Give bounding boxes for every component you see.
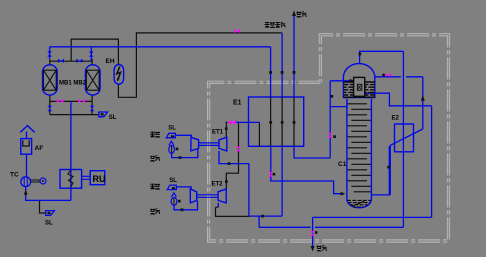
wire: ET1 silencer suction run — [172, 149, 198, 158]
wire: nitrogen product riser — [293, 15, 295, 98]
wire: column right outlet up to E2 — [371, 145, 390, 195]
silencer ET1 body — [169, 145, 175, 153]
wire: ET1 turbine outlet — [219, 151, 249, 216]
svg-text:SL: SL — [169, 178, 177, 184]
wire: H2 header left part — [259, 226, 311, 228]
condenser core block — [354, 77, 365, 96]
valve MB2 riser — [89, 52, 94, 57]
dot ET1 riser — [225, 127, 228, 130]
svg-text:ET1: ET1 — [212, 130, 224, 136]
label 氧气 (oxygen gas) — [317, 246, 327, 251]
wire: condenser circuit riser w/ valve — [329, 81, 331, 158]
dot ET2 inlet junction — [225, 180, 228, 183]
wire: air inlet through AF filter — [26, 132, 28, 178]
svg-text:E1: E1 — [233, 100, 242, 107]
electric heater EH — [114, 65, 124, 85]
wire: ET1 feed into E1 (blue part) — [235, 121, 260, 123]
valve condenser riser — [328, 133, 332, 138]
dot dome top line — [359, 53, 362, 56]
double arrow ET1 feed — [227, 120, 236, 124]
wire: MB1 riser w/ valve — [49, 47, 51, 59]
wire: EH bottom loop to regeneration header — [118, 33, 282, 97]
wire: TC discharge run — [26, 186, 71, 200]
SL flag instrument (ET2) — [167, 185, 176, 190]
wire: E1 regen pass to H1a — [281, 146, 283, 216]
turbine set ET2: turbine — [218, 189, 226, 203]
arrow column feed inlet — [341, 192, 346, 196]
dot dome right tap — [382, 74, 385, 77]
adsorber MB2 — [85, 65, 100, 95]
wire: E1 nitrogen pass to condenser circuit — [294, 146, 330, 158]
wire: condenser inlet w/ arrow — [330, 80, 353, 82]
magenta valves — [57, 29, 392, 236]
turbine set ET1: booster — [191, 137, 199, 151]
dot silencer ET2 side — [178, 200, 181, 203]
wire: air feed down into E1 — [270, 47, 272, 97]
cold box dashed boundary — [209, 35, 449, 241]
svg-text:SL: SL — [109, 115, 117, 121]
label 吸气 at ET1 — [150, 156, 160, 161]
dot right of condenser valve — [333, 135, 336, 138]
arrow nitrogen product out — [292, 11, 296, 17]
SL trap at TC — [46, 211, 55, 216]
svg-text:EH: EH — [106, 58, 115, 65]
dot H1a junction — [261, 215, 264, 218]
wire: ET1 booster vent to SL flag — [176, 135, 192, 138]
wire: oxygen vent line w/ valve — [312, 217, 314, 247]
wire: MB center product line down through aftercooler — [70, 101, 72, 200]
valve upper header left — [58, 59, 64, 63]
dot E1 pass 3 — [293, 121, 296, 124]
wire: V2 down to E2 diagonal — [422, 77, 424, 129]
wire: MB lower header A with magenta valves — [50, 100, 92, 102]
valve MB1 bottom — [48, 106, 53, 111]
dot right of E1-outlet valve — [273, 173, 276, 176]
svg-text:ET2: ET2 — [212, 182, 224, 188]
valve dome right tap — [386, 73, 392, 77]
RU box — [82, 171, 105, 185]
wire: MB upper header between top valves — [50, 60, 92, 62]
SL flag instrument (ET1) — [166, 133, 175, 138]
turbine set ET2: booster — [190, 189, 196, 203]
wire: MB1 top stub — [49, 59, 51, 65]
motor m — [40, 178, 46, 184]
arrow nitrogen riser — [293, 71, 296, 74]
wire: dome right tap through valve to V2 — [375, 76, 423, 78]
svg-text:TC: TC — [10, 172, 19, 179]
label 氮气 (nitrogen gas) — [296, 12, 306, 17]
wire: main air header from MB to cold box — [50, 46, 271, 48]
blue valves — [47, 51, 94, 111]
arrow feed into E1 top — [269, 71, 272, 74]
wire: condenser outlet to V3 — [365, 93, 432, 106]
label 富氧空气 (oxygen-enriched air) — [265, 22, 286, 27]
compressor TC circle — [21, 177, 31, 187]
arrow V2 up — [421, 95, 425, 100]
dot E2 downleg — [387, 166, 390, 169]
svg-text:RU: RU — [93, 174, 106, 184]
wire: drop to H2 — [258, 216, 260, 227]
wire: H2 header right part to V1 — [315, 226, 404, 228]
valve regen header A right — [78, 99, 85, 103]
wire: ET2 booster vent to SL flag — [177, 187, 192, 190]
wire: regeneration return riser into E1 — [281, 33, 283, 97]
svg-text:AF: AF — [35, 145, 44, 152]
dot ET1 outlet — [228, 162, 231, 165]
wire: TC drain branch to SL trap — [40, 200, 46, 213]
wire: ET1 turbine inlet riser — [226, 122, 227, 137]
SL trap at MB2 — [99, 112, 108, 117]
wire: vent header to H1 — [216, 207, 250, 216]
wire: column top gas branch — [330, 106, 347, 108]
dot ET1 silencer line — [179, 156, 182, 159]
air filter AF — [21, 139, 32, 155]
svg-text:SL: SL — [168, 126, 176, 132]
shaft TC-motor — [31, 180, 40, 182]
column C1 dome — [343, 64, 374, 98]
dot condenser riser branch — [331, 95, 334, 98]
wire: ET2 turbine outlet stub — [217, 203, 219, 207]
dot ET2 silencer line — [181, 208, 184, 211]
E1 internal passes — [259, 97, 294, 146]
svg-text:MB1 MB2: MB1 MB2 — [59, 80, 87, 86]
wire: MB lower header B to SL trap — [50, 114, 100, 116]
wire: MB2 top stub — [91, 59, 93, 65]
arrow condenser inlet — [350, 79, 355, 83]
column trays — [348, 104, 371, 192]
wire: H1b header — [313, 216, 432, 218]
svg-text:SL: SL — [45, 220, 53, 226]
silencer ET2 chevron — [171, 193, 176, 197]
valve MB1 riser — [47, 51, 52, 56]
aftercooler box with coil — [60, 170, 82, 189]
wire: E2 diagonal exchanger pass — [390, 129, 423, 145]
wire: V3 down to H1b — [431, 106, 433, 218]
wire: H1a turbine exhaust header — [250, 215, 282, 217]
main heat exchanger E1 — [249, 97, 304, 146]
wire: ET2 silencer suction run — [174, 201, 198, 210]
adsorber MB1 — [43, 65, 58, 95]
wire: V1 vertical through E2 — [402, 51, 404, 227]
arrow regen riser — [281, 71, 284, 74]
valve ET2 inlet — [236, 146, 240, 151]
label 放空 at ET1 — [150, 132, 160, 137]
wire: MB1 bottom drop — [49, 95, 51, 115]
svg-text:E2: E2 — [392, 115, 400, 121]
dot E1 pass 2 — [281, 121, 284, 124]
air intake chevron — [20, 126, 34, 133]
wire: MB2 riser w/ valve — [90, 47, 92, 61]
svg-text:C1: C1 — [338, 161, 347, 168]
dot right of oxygen valve — [315, 231, 318, 234]
label 吸气 at ET2 — [150, 209, 160, 214]
silencer ET1 chevron — [169, 141, 174, 145]
dot E1 pass 1 — [269, 121, 272, 124]
valve regen header A left — [57, 99, 64, 103]
column bottom bowl — [347, 200, 372, 208]
wire: E1 air pass down to column feed — [271, 146, 344, 193]
column C1 shell — [347, 99, 372, 200]
wire: ET2 inlet branch from valve line — [226, 122, 238, 189]
column sump liquid hatch — [347, 200, 370, 207]
dot silencer ET1 side — [176, 148, 179, 151]
valve E1 air outlet — [269, 172, 273, 177]
turbine set ET1: shaft — [199, 143, 219, 146]
label 放空 at ET2 — [150, 184, 160, 189]
valve MB2 bottom — [90, 106, 95, 111]
turbine set ET2: shaft — [197, 195, 218, 198]
condenser brick packing — [343, 82, 375, 97]
wire: MB2 bottom drop — [91, 95, 93, 115]
subcooler E2 box — [395, 124, 414, 152]
wire: dome top line to V1 — [360, 51, 404, 63]
wire: ET1 feed line from E1 mid tap — [235, 121, 239, 123]
silencer ET2 body — [171, 197, 177, 205]
turbine set ET1: turbine — [219, 137, 227, 151]
arrow TC suction — [24, 190, 28, 195]
valve regen line top — [234, 29, 240, 33]
valve upper header right — [76, 59, 82, 63]
valve oxygen vent — [311, 231, 315, 236]
arrow oxygen vent out — [311, 246, 315, 252]
wire: EH loop upper (header to EH top) — [71, 39, 118, 64]
